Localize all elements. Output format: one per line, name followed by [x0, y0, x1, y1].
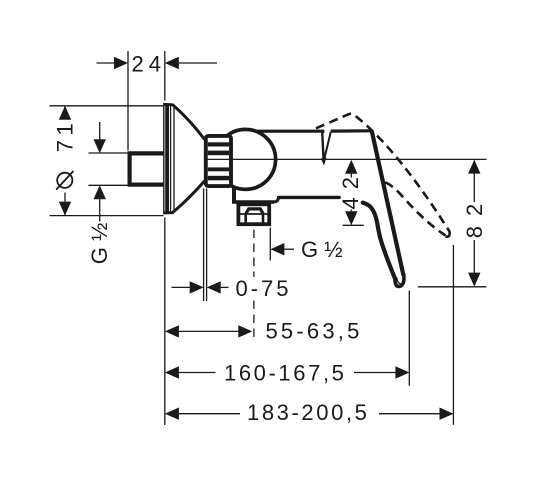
lever tip: [395, 274, 404, 287]
dimension 183-200,5 arrows: [165, 408, 454, 420]
svg-text:G ½: G ½: [301, 237, 343, 262]
dimension 24 extension line left: [127, 51, 129, 151]
body top line: [256, 129, 372, 133]
handle tip extension line: [408, 291, 410, 386]
svg-text:G ½: G ½: [87, 223, 112, 265]
wall pipe stub: [130, 153, 166, 184]
dimension 24 arrows and tails: [97, 57, 218, 69]
dimension 160-167,5 arrows: [165, 366, 410, 378]
svg-text:24: 24: [132, 51, 166, 76]
body bottom left edge: [232, 186, 236, 203]
dimension O71 line and arrows: [59, 106, 71, 216]
dimension label 24: [132, 51, 166, 76]
dimension label 82: [462, 194, 487, 238]
valve body fill: [233, 131, 404, 287]
dimension G1/2 bottom: outlet extension line: [269, 228, 271, 261]
outlet nut outline: [238, 204, 269, 224]
svg-text:0-75: 0-75: [236, 276, 292, 301]
outlet thread cap: [246, 209, 263, 214]
dimension 42 line and arrows: [345, 160, 357, 225]
outlet nut facet lines: [246, 214, 263, 224]
svg-text:55-63,5: 55-63,5: [266, 318, 363, 343]
dimension 55-63,5 arrows: [165, 325, 252, 337]
outlet nut mid line: [237, 213, 272, 215]
dimension label G1/2 left: [87, 223, 112, 265]
svg-text:183-200,5: 183-200,5: [247, 400, 370, 425]
body bottom edge at outlet: [232, 200, 274, 204]
svg-text:82: 82: [462, 194, 487, 238]
lever raised position dashed inner: [385, 182, 445, 235]
lever raised position dashed outer: [316, 114, 449, 232]
dimension label O71: [52, 119, 77, 190]
dimension 0-75 arrows: [172, 281, 229, 293]
body bottom edge right: [279, 196, 340, 199]
outlet axis dashed line: [253, 230, 255, 338]
escutcheon bottom edge: [164, 181, 205, 213]
lever raised position dashed tip: [445, 231, 449, 237]
dimension 42 bottom reference line: [343, 224, 364, 226]
dimension G1/2 left: line and arrows: [94, 122, 106, 222]
dimension 82 bottom reference line: [418, 286, 487, 288]
cartridge dome circle: [216, 129, 276, 189]
escutcheon top edge: [164, 104, 205, 139]
dimension O71 top reference line: [50, 105, 164, 107]
lever joint notch: [321, 132, 331, 166]
escutcheon cone fill: [164, 104, 205, 212]
raised handle tip extension line: [452, 245, 454, 425]
center axis line: [205, 158, 487, 160]
dimension label G1/2 bottom: [301, 237, 343, 262]
body bottom step: [274, 198, 279, 203]
wall plane extension line: [164, 218, 166, 426]
dimension label 160-167,5: [224, 360, 347, 385]
outlet nut fill: [237, 203, 272, 227]
dimension label 183-200,5: [247, 400, 370, 425]
dimension 24 extension line right: [164, 51, 166, 101]
dimension G1/2 bottom arrow: [270, 243, 294, 255]
escutcheon wall line: [163, 103, 165, 214]
escutcheon inner line 2: [173, 108, 175, 211]
svg-text:71: 71: [52, 119, 77, 152]
escutcheon inner line 1: [170, 106, 172, 212]
svg-text:42: 42: [338, 169, 363, 209]
dimension label 42: [338, 169, 363, 209]
escutcheon flange face: [165, 104, 169, 213]
svg-text:160-167,5: 160-167,5: [224, 360, 347, 385]
dimension label 0-75: [236, 276, 292, 301]
dimension 82 line and arrows: [468, 160, 480, 287]
knurled union nut: [206, 136, 231, 186]
0-75 extension line pair: [204, 189, 207, 302]
dimension G1/2 left: reference lines: [89, 153, 128, 185]
dimension label 55-63,5: [266, 318, 363, 343]
lever inner edge: [363, 203, 395, 279]
lever outer edge: [372, 131, 404, 276]
dimension O71 bottom reference line: [50, 215, 164, 217]
